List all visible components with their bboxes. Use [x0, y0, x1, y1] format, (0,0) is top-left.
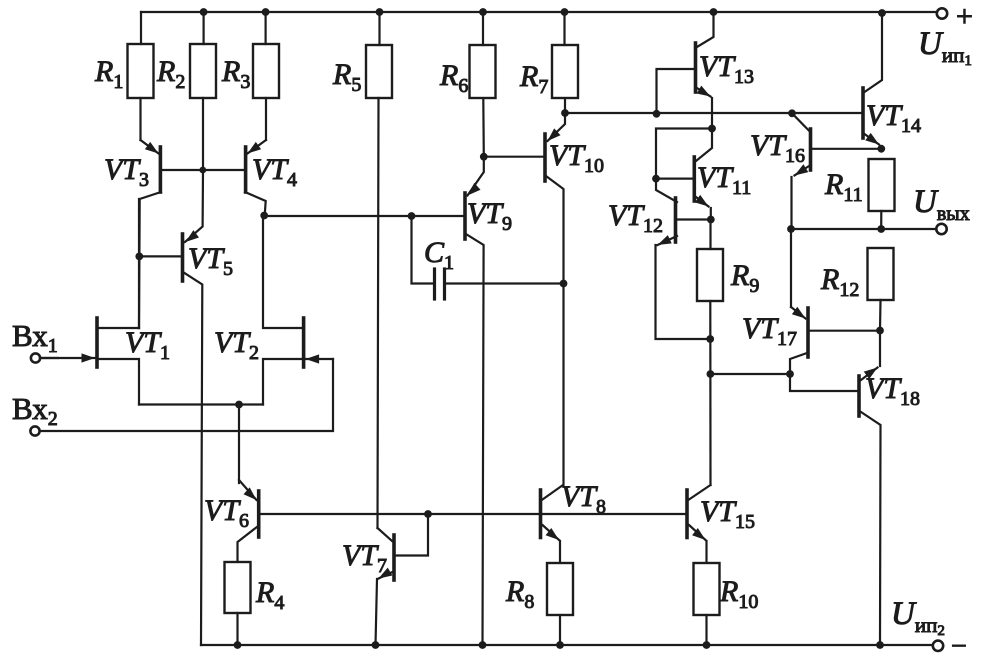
capacitor C1 — [412, 216, 564, 299]
wire bottom rail (−Uип2) — [201, 644, 933, 646]
label R11 — [824, 168, 863, 206]
transistor VT8 — [541, 485, 564, 563]
transistor VT12 — [656, 179, 711, 245]
node R10 bottom — [703, 641, 711, 649]
wire R9 tap to VT17 — [710, 373, 790, 375]
label R9 — [730, 259, 759, 297]
label R2 — [156, 55, 185, 93]
transistor VT4 — [245, 140, 266, 216]
label C1 — [424, 236, 454, 274]
node VT7 emitter bottom — [372, 641, 380, 649]
node R2 top — [200, 8, 208, 16]
resistor R2 — [190, 12, 216, 170]
wire top rail (+Uип1) — [141, 11, 936, 13]
transistor VT6 — [238, 480, 259, 562]
label R7 — [519, 60, 548, 98]
wire Bx2 to VT2 emitter — [40, 359, 333, 431]
wire bias line — [262, 513, 687, 515]
label VT7 — [342, 539, 387, 577]
node R11-R12 junction — [877, 225, 885, 233]
transistor VT16 — [792, 113, 882, 229]
label VT9 — [467, 197, 512, 235]
wire VT3-VT4 base — [162, 169, 244, 171]
wire VT9-VT10 base link — [484, 156, 543, 158]
node VT5 base — [135, 253, 143, 261]
label minus — [951, 631, 967, 660]
resistor R9 — [697, 220, 723, 486]
label VT11 — [697, 161, 751, 199]
label R8 — [505, 575, 534, 613]
resistor R3 — [253, 12, 279, 140]
wire VT3 collector drop — [138, 199, 140, 328]
node VT7 base — [424, 510, 432, 518]
node VT11 base — [652, 175, 660, 183]
terminal −Uип2 — [933, 641, 943, 651]
resistor R10 — [694, 563, 720, 645]
transistor VT11 — [656, 129, 712, 220]
label VT8 — [561, 480, 606, 518]
label R6 — [439, 59, 468, 97]
label Uип1 — [918, 26, 972, 69]
transistor VT2 — [263, 216, 333, 405]
transistor VT18 — [790, 331, 881, 646]
wire VT4 collector to VT9 base — [264, 215, 464, 217]
transistor VT15 — [687, 485, 711, 563]
label R3 — [221, 55, 250, 93]
node R6 top — [479, 8, 487, 16]
terminal +Uип1 — [937, 8, 947, 18]
transistor VT7 — [376, 514, 429, 645]
resistor R7 — [552, 12, 578, 113]
resistor R11 — [869, 159, 895, 229]
node VT13 emitter — [708, 125, 716, 133]
transistor VT13 — [657, 12, 714, 129]
label Bx2 — [12, 391, 58, 430]
label Uвых — [913, 184, 970, 225]
node R7 top — [561, 8, 569, 16]
node VT17 collector — [786, 370, 794, 378]
wire output line — [791, 228, 935, 230]
label VT1 — [125, 326, 170, 364]
wire emitters VT1-VT2 — [139, 403, 263, 405]
resistor R5 — [366, 12, 392, 528]
node VT18 collector bottom — [876, 641, 884, 649]
node R8 bottom — [556, 641, 564, 649]
label R10 — [719, 575, 758, 613]
wire VT6 emitter riser — [238, 405, 240, 484]
label VT15 — [700, 495, 755, 533]
transistor VT17 — [790, 229, 880, 374]
transistor VT3 — [139, 140, 161, 328]
node VT13 collector top — [710, 8, 718, 16]
wire main bias rail y113 — [565, 112, 861, 114]
node C1 tap — [408, 212, 416, 220]
label plus — [956, 0, 973, 33]
label Uип2 — [891, 596, 945, 639]
label VT5 — [188, 242, 233, 280]
node C1 right — [560, 280, 568, 288]
terminal Bx1 — [31, 353, 58, 362]
node R12 bottom — [876, 327, 884, 335]
node output left — [787, 225, 795, 233]
label R12 — [820, 263, 859, 301]
node VT16 tap — [788, 109, 796, 117]
label R5 — [332, 58, 361, 96]
label Bx1 — [12, 318, 58, 357]
node R5 top — [376, 8, 384, 16]
terminal Bx2 — [30, 426, 39, 435]
label VT16 — [750, 129, 805, 167]
resistor R12 — [868, 248, 894, 331]
wire VT12 emitter to R9 bottom — [656, 245, 709, 339]
node base junction R2 — [199, 167, 206, 174]
wire VT11 link — [656, 129, 712, 179]
resistor R4 — [225, 562, 251, 645]
label VT10 — [549, 139, 604, 177]
label VT18 — [865, 372, 920, 410]
svg-text:−: − — [951, 631, 967, 660]
label VT3 — [104, 153, 149, 191]
node VT4 collector — [260, 212, 268, 220]
node R7 bottom — [561, 109, 569, 117]
label VT2 — [214, 326, 259, 364]
node VT14 emitter junction — [877, 145, 885, 153]
node VT11 emitter — [707, 216, 715, 224]
label VT17 — [742, 312, 797, 350]
node VT14 collector top — [878, 9, 886, 17]
resistor R1 — [128, 12, 154, 140]
label VT4 — [252, 153, 297, 191]
svg-text:+: + — [956, 0, 973, 33]
transistor VT5 — [139, 170, 203, 645]
transistor VT1 — [40, 318, 139, 405]
transistor VT10 — [545, 113, 565, 485]
node VT9 collector bottom — [479, 641, 487, 649]
transistor VT14 — [863, 13, 882, 149]
node R4 bottom — [234, 641, 242, 649]
terminal Uвых — [936, 224, 946, 234]
label VT13 — [699, 50, 754, 88]
transistor VT9 — [465, 157, 484, 645]
label R1 — [94, 55, 123, 93]
label VT12 — [608, 199, 663, 237]
label R4 — [255, 576, 284, 614]
node R3 top — [262, 8, 270, 16]
resistor R6 — [470, 12, 496, 157]
node R6 bottom — [480, 153, 488, 161]
label VT6 — [204, 494, 249, 532]
label VT14 — [866, 99, 921, 137]
node VT13 base — [653, 110, 661, 118]
node emitter junction — [235, 401, 243, 409]
resistor R8 — [547, 563, 573, 645]
node R9 bottom junction — [706, 335, 714, 343]
node VT15 collector tap — [707, 370, 715, 378]
